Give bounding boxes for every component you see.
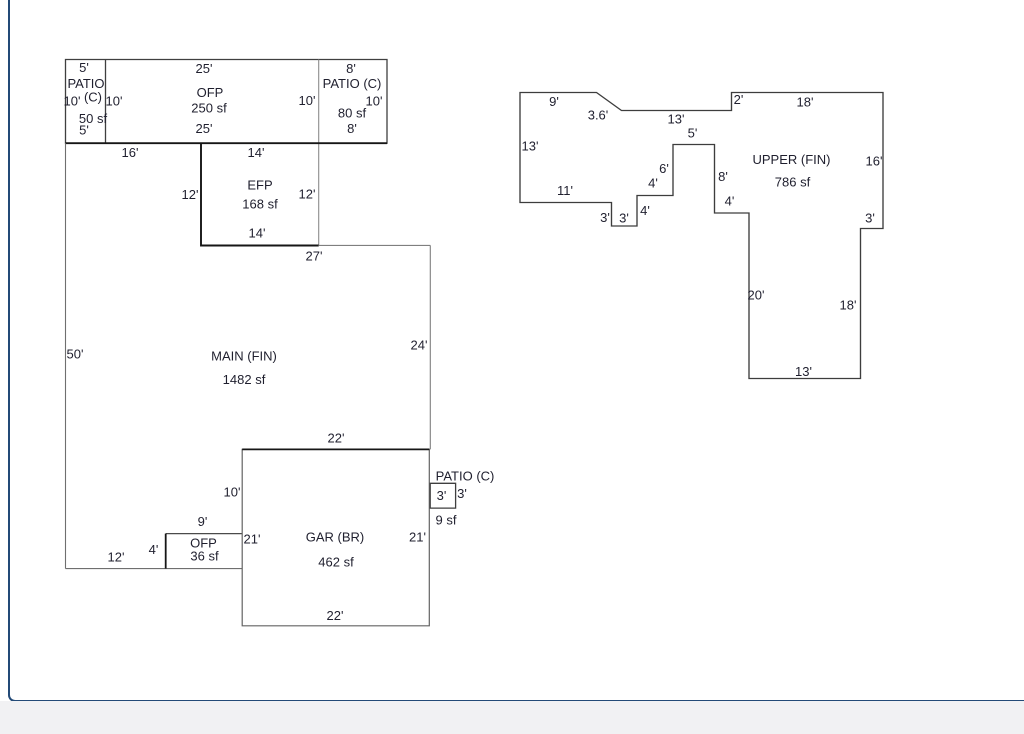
- svg-text:20': 20': [748, 288, 765, 303]
- strip bottom bold line / main top edge: [66, 142, 388, 144]
- svg-text:786 sf: 786 sf: [775, 175, 811, 190]
- divider PATIO50 / OFP: [105, 60, 107, 144]
- svg-text:5': 5': [79, 60, 89, 75]
- svg-text:6': 6': [659, 161, 669, 176]
- svg-text:18': 18': [840, 298, 857, 313]
- svg-text:10': 10': [106, 94, 123, 109]
- footer gray strip: [0, 701, 1024, 734]
- svg-text:12': 12': [182, 187, 199, 202]
- main top edge right of EFP (27ft): [319, 244, 431, 246]
- svg-text:13': 13': [668, 112, 685, 127]
- svg-text:9': 9': [549, 94, 559, 109]
- svg-text:22': 22': [327, 608, 344, 623]
- svg-text:21': 21': [409, 530, 426, 545]
- svg-text:2': 2': [734, 92, 744, 107]
- svg-text:13': 13': [795, 364, 812, 379]
- svg-text:PATIO (C): PATIO (C): [323, 76, 382, 91]
- svg-text:250 sf: 250 sf: [191, 101, 227, 116]
- svg-text:21': 21': [244, 532, 261, 547]
- main right edge (24ft): [429, 245, 431, 449]
- svg-text:10': 10': [64, 94, 81, 109]
- svg-text:1482 sf: 1482 sf: [223, 372, 266, 387]
- svg-text:25': 25': [196, 61, 213, 76]
- svg-text:16': 16': [122, 145, 139, 160]
- svg-text:25': 25': [196, 121, 213, 136]
- svg-text:GAR (BR): GAR (BR): [306, 530, 365, 545]
- svg-text:12': 12': [108, 550, 125, 565]
- svg-text:3': 3': [457, 486, 467, 501]
- svg-text:3': 3': [619, 211, 629, 226]
- svg-text:36 sf: 36 sf: [190, 549, 219, 564]
- top porch strip outer rectangle (PATIO 50sf + OFP 250sf + PATIO 80sf): [66, 60, 388, 144]
- svg-text:4': 4': [149, 542, 159, 557]
- svg-text:PATIO (C): PATIO (C): [436, 469, 495, 484]
- svg-text:OFP: OFP: [197, 85, 224, 100]
- svg-text:13': 13': [522, 139, 539, 154]
- svg-text:5': 5': [688, 126, 698, 141]
- svg-text:12': 12': [299, 187, 316, 202]
- svg-text:3': 3': [865, 211, 875, 226]
- svg-text:9': 9': [198, 514, 208, 529]
- svg-text:27': 27': [306, 249, 323, 264]
- divider OFP / PATIO80 continuing as EFP right edge (thin gray): [318, 60, 320, 246]
- svg-text:4': 4': [648, 176, 658, 191]
- main bottom edge (12ft) continuing under OFP36: [66, 568, 243, 570]
- svg-text:4': 4': [725, 194, 735, 209]
- svg-text:3.6': 3.6': [588, 108, 609, 123]
- svg-text:(C): (C): [84, 90, 102, 105]
- svg-text:24': 24': [411, 338, 428, 353]
- svg-text:5': 5': [79, 123, 89, 138]
- svg-text:8': 8': [347, 121, 357, 136]
- PATIO 9sf small box: [430, 483, 455, 508]
- GAR rectangle: [242, 449, 429, 625]
- GAR top bold line: [242, 448, 429, 450]
- svg-text:4': 4': [640, 203, 650, 218]
- svg-text:MAIN (FIN): MAIN (FIN): [211, 349, 277, 364]
- OFP36 top edge: [166, 533, 243, 535]
- UPPER (FIN) building outline: [520, 93, 883, 379]
- EFP bold left and bottom edges: [201, 143, 319, 245]
- svg-text:8': 8': [718, 169, 728, 184]
- svg-text:168 sf: 168 sf: [242, 197, 278, 212]
- svg-text:3': 3': [437, 488, 447, 503]
- svg-text:3': 3': [600, 210, 610, 225]
- svg-text:14': 14': [249, 226, 266, 241]
- svg-text:18': 18': [797, 95, 814, 110]
- svg-text:50': 50': [67, 347, 84, 362]
- svg-text:10': 10': [299, 93, 316, 108]
- svg-text:22': 22': [328, 431, 345, 446]
- svg-text:80 sf: 80 sf: [338, 106, 367, 121]
- svg-text:9 sf: 9 sf: [436, 513, 457, 528]
- OFP36 bold left edge (4ft step): [165, 534, 167, 569]
- svg-text:8': 8': [346, 61, 356, 76]
- svg-text:462 sf: 462 sf: [318, 555, 354, 570]
- svg-text:EFP: EFP: [247, 178, 272, 193]
- svg-text:14': 14': [248, 145, 265, 160]
- svg-text:11': 11': [557, 183, 573, 198]
- svg-text:16': 16': [866, 154, 883, 169]
- svg-text:10': 10': [224, 485, 241, 500]
- svg-text:10': 10': [366, 94, 383, 109]
- main left edge (50ft): [65, 143, 67, 568]
- svg-text:UPPER (FIN): UPPER (FIN): [753, 152, 831, 167]
